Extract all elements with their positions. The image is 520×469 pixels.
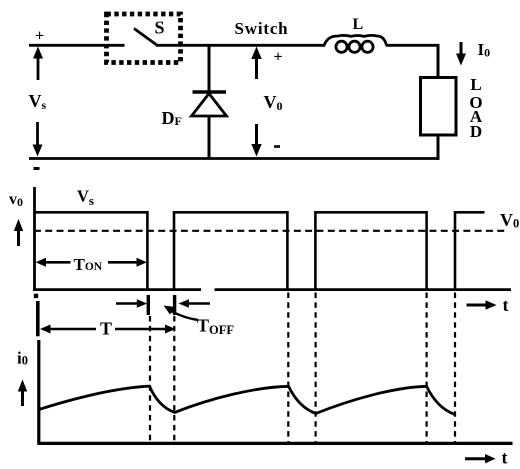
- arrow i0 axis up: [18, 380, 27, 407]
- dashed drop line at second rise: [173, 316, 175, 443]
- wire load branch upper: [437, 44, 440, 79]
- dashed drop line at third rise: [315, 293, 317, 444]
- switch S blade: [134, 29, 158, 46]
- arrow V0 down: [251, 124, 261, 157]
- wire top-left segment: [29, 44, 125, 47]
- arrow Vs up: [33, 47, 43, 81]
- i0 plot y-axis: [37, 340, 40, 445]
- svg-text:L: L: [470, 75, 481, 94]
- svg-text:D: D: [470, 122, 482, 141]
- arrow pointing right at TOFF start: [116, 299, 147, 308]
- svg-text:+: +: [35, 28, 44, 45]
- i0 plot x-axis: [38, 442, 513, 445]
- tick bar at TOFF end: [173, 295, 176, 315]
- inductor L loop 3: [362, 41, 373, 52]
- arrow V0 up: [251, 47, 261, 80]
- dashed drop line at fourth rise: [454, 293, 456, 444]
- inductor L loop 2: [349, 41, 360, 52]
- v0 plot x-axis baseline: [33, 288, 201, 291]
- wire top-right segment: [386, 44, 439, 47]
- dashed V0 average level: [34, 230, 509, 232]
- current ripple curve: [39, 386, 455, 414]
- svg-text:T: T: [100, 319, 112, 339]
- svg-text:S: S: [155, 18, 165, 38]
- diode DF cathode bar: [193, 90, 227, 93]
- t axis arrow (i0 plot): [465, 454, 496, 463]
- svg-text:+: +: [274, 49, 283, 66]
- wire bottom return: [29, 157, 439, 160]
- inductor L hump outline: [324, 35, 387, 45]
- dimension T right arrow: [115, 325, 176, 334]
- svg-text:t: t: [502, 448, 508, 468]
- svg-text:t: t: [503, 295, 509, 315]
- dashed drop line at third fall: [426, 293, 428, 444]
- svg-text:L: L: [353, 16, 364, 33]
- load box: [421, 78, 457, 136]
- label LOAD: [469, 75, 482, 141]
- dashed drop line at first fall: [149, 316, 151, 443]
- dashed drop line at second fall: [287, 293, 289, 444]
- switch S dotted enclosure: [107, 14, 181, 63]
- tick dot at origin below baseline: [34, 294, 38, 298]
- curved arrow to TOFF gap: [164, 306, 199, 321]
- dimension T left arrow: [40, 325, 96, 334]
- inductor L loop 1: [336, 41, 347, 52]
- pulse 1: [35, 212, 148, 289]
- pulse 3: [315, 212, 426, 289]
- t axis arrow (v0 plot): [467, 300, 497, 309]
- tick bar at TOFF start: [147, 295, 150, 315]
- wire top-middle segment: [156, 44, 325, 47]
- dimension TON left arrow: [36, 258, 71, 267]
- arrow Vs down: [33, 122, 43, 157]
- pulse 2: [174, 212, 287, 289]
- node at diode junction / wire diode branch upper: [208, 45, 211, 92]
- arrow v0 axis up: [14, 219, 23, 246]
- svg-text:Switch: Switch: [235, 19, 289, 38]
- diode DF triangle: [192, 94, 227, 117]
- v0 plot y-axis: [33, 187, 36, 291]
- label - (V0 negative): [274, 145, 280, 148]
- arrow I0 down: [456, 42, 466, 66]
- wire diode branch lower: [208, 116, 211, 159]
- dimension TON right arrow: [108, 258, 147, 267]
- dimension T left bracket: [36, 301, 40, 336]
- arrow pointing left at TOFF end: [179, 299, 211, 308]
- label - (source negative): [34, 167, 40, 170]
- wire load branch lower: [437, 135, 440, 160]
- pulse 4: [455, 212, 485, 289]
